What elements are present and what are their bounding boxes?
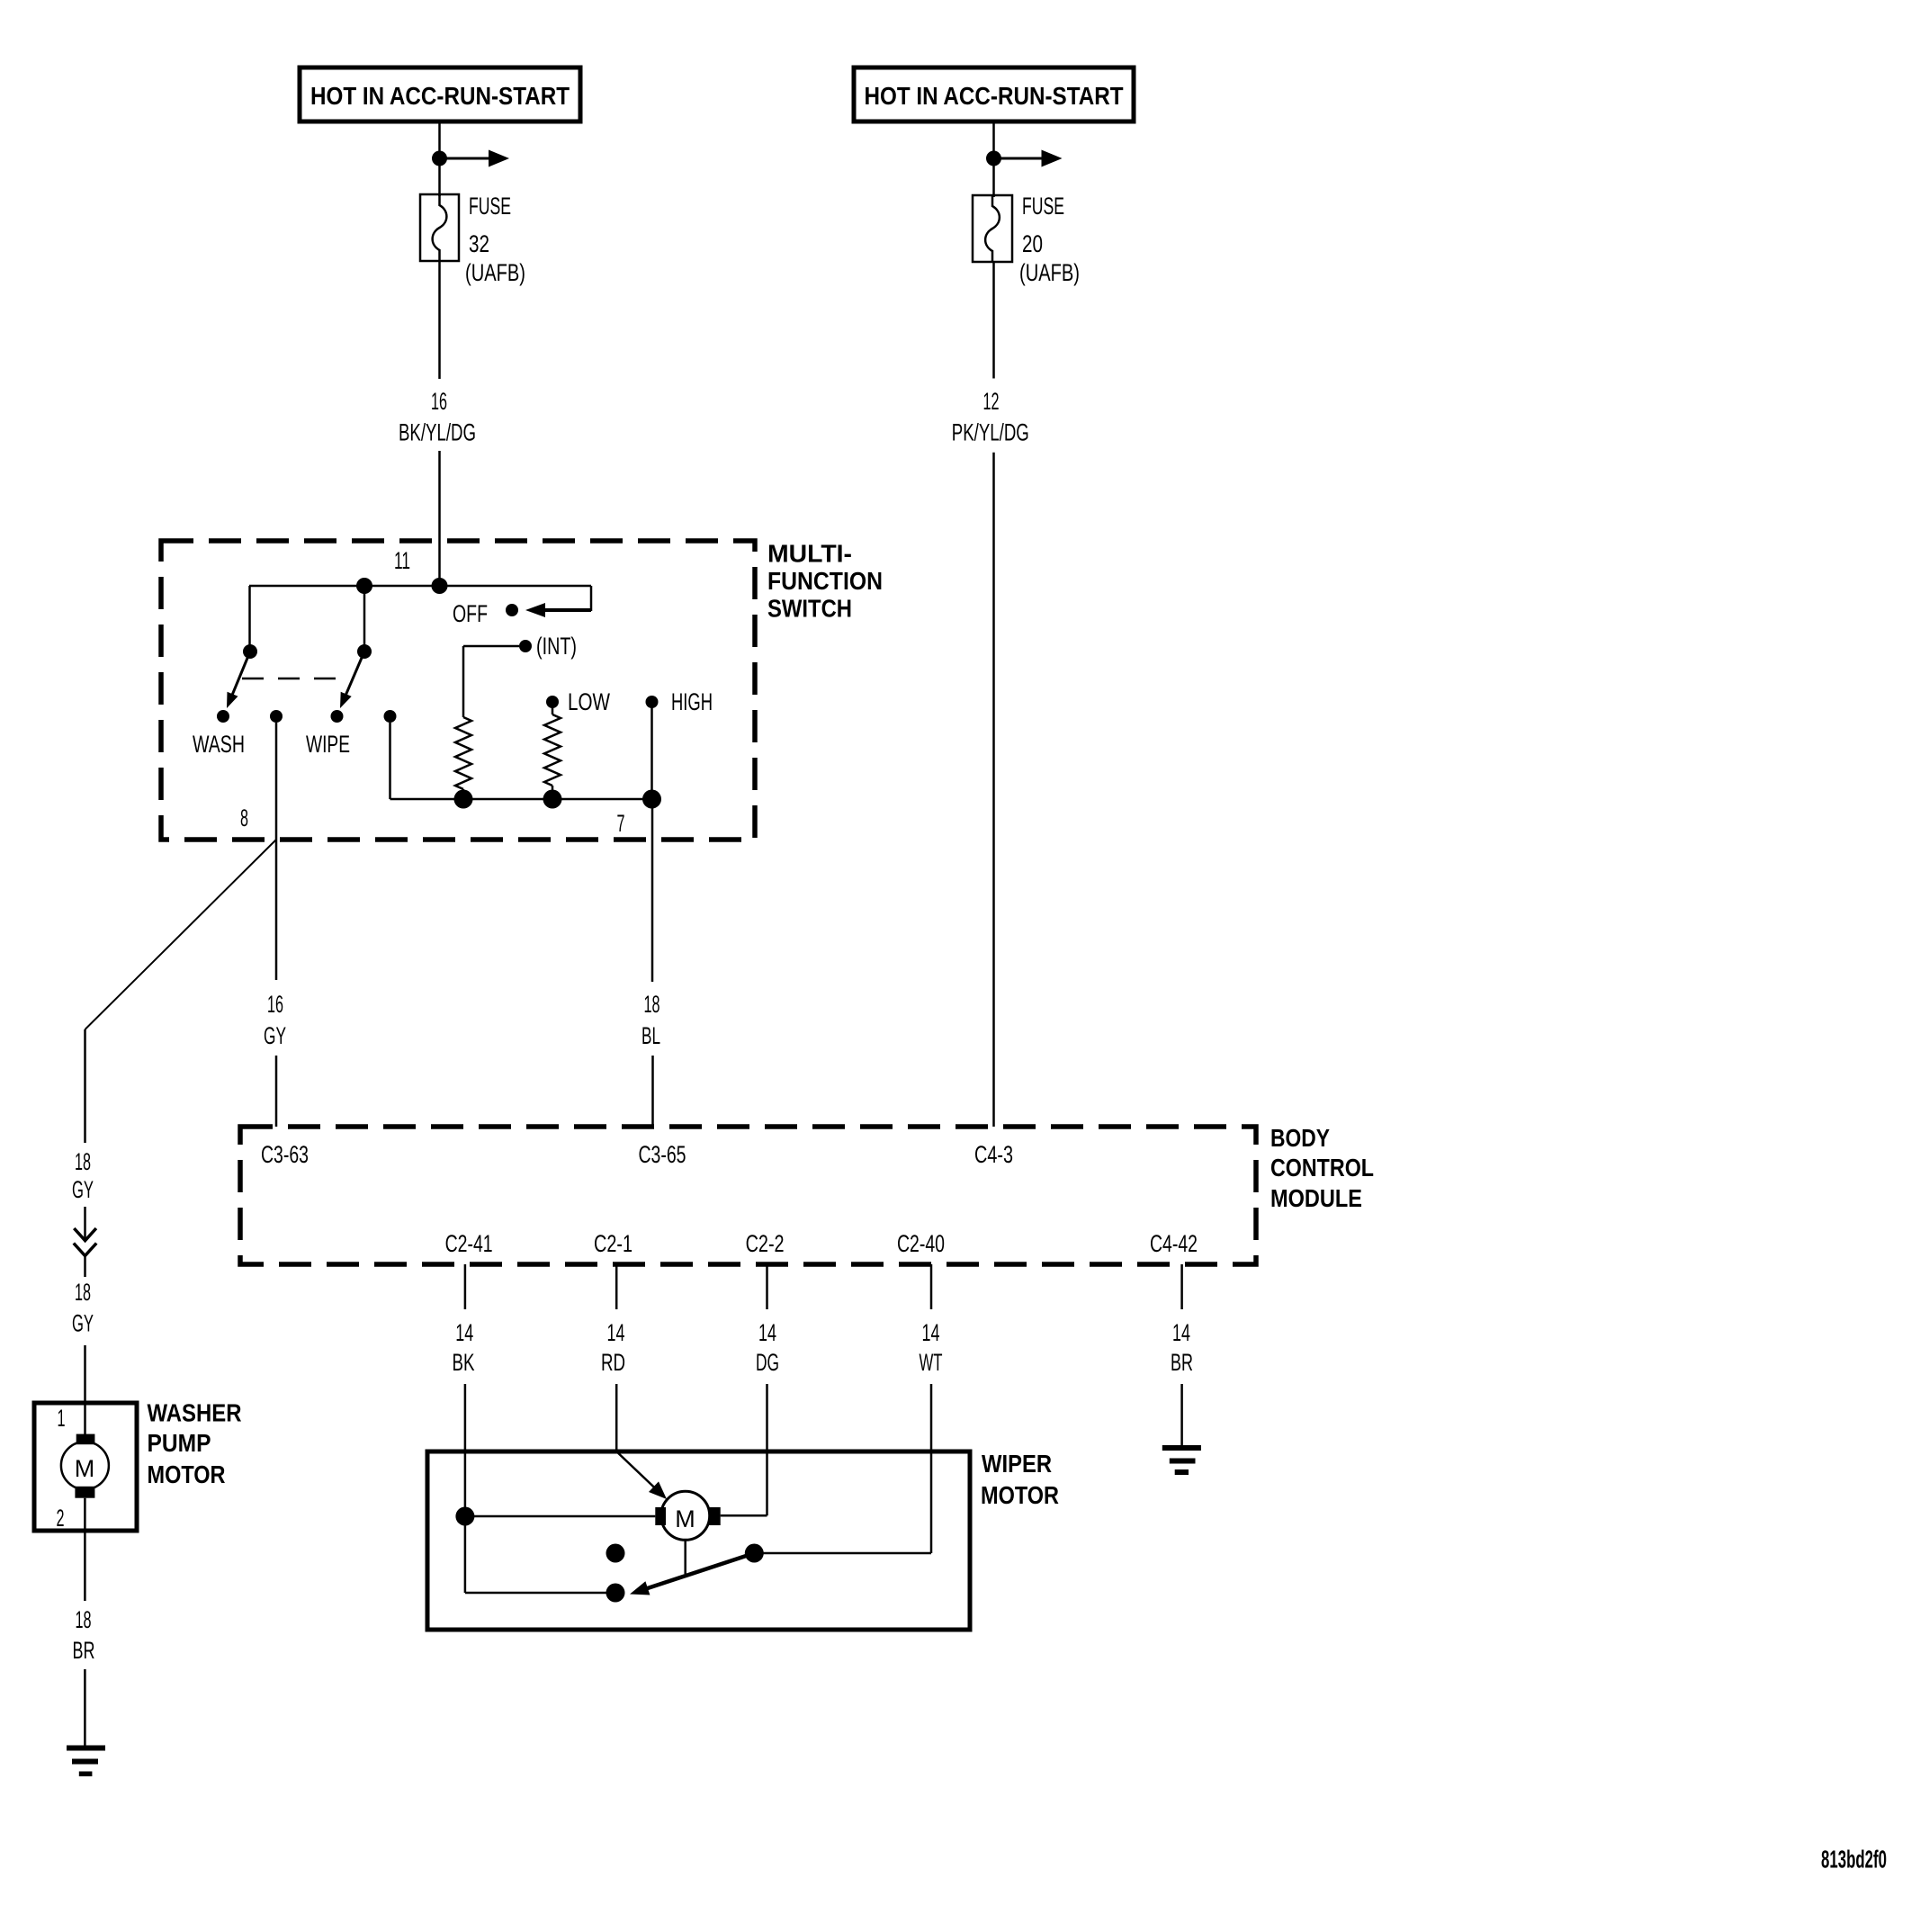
- wire wipe output contact to bus: [389, 723, 391, 799]
- wire label 16 BK/YL/DG: [399, 388, 476, 446]
- wire label 14 BR: [1171, 1319, 1193, 1376]
- wiper motor label: [981, 1450, 1059, 1509]
- svg-text:HOT IN ACC-RUN-START: HOT IN ACC-RUN-START: [865, 82, 1124, 110]
- svg-text:GY: GY: [264, 1022, 286, 1049]
- svg-text:MOTOR: MOTOR: [148, 1460, 226, 1488]
- wire bus right drop to OFF: [590, 586, 593, 611]
- svg-text:BR: BR: [1171, 1349, 1193, 1376]
- label LOW: [568, 688, 610, 715]
- wire speed output bus: [390, 798, 652, 801]
- svg-text:M: M: [75, 1455, 95, 1482]
- svg-text:GY: GY: [72, 1176, 94, 1203]
- wire fuse20 to label 12: [992, 262, 995, 379]
- svg-text:C4-3: C4-3: [974, 1141, 1013, 1168]
- wire to inline connector: [84, 1207, 86, 1240]
- wire INT resistor to bus: [462, 789, 465, 799]
- washer pump motor box: [34, 1403, 137, 1531]
- body control module label: [1270, 1124, 1374, 1212]
- wire bus drop to wipe pivot: [363, 586, 366, 651]
- svg-text:14: 14: [455, 1319, 473, 1346]
- wire washer pump diagonal: [85, 840, 277, 1029]
- svg-text:32: 32: [469, 230, 489, 257]
- svg-text:LOW: LOW: [568, 688, 610, 715]
- svg-text:(UAFB): (UAFB): [465, 259, 525, 286]
- wire label 14 RD: [601, 1319, 625, 1376]
- pin C4-42 label: [1150, 1230, 1198, 1257]
- multi-function switch box (dashed): [161, 541, 755, 840]
- wire pin 7 to BCM C3-65: [651, 1056, 654, 1127]
- pin C2-41 label: [445, 1230, 493, 1257]
- wire washer pump drop 1: [84, 1029, 86, 1143]
- svg-text:16: 16: [431, 388, 447, 415]
- svg-text:WT: WT: [920, 1349, 943, 1376]
- contact OFF: [506, 604, 518, 616]
- pin C2-40 label: [897, 1230, 945, 1257]
- svg-text:FUSE: FUSE: [469, 193, 511, 220]
- wire C2-40 down: [930, 1264, 933, 1309]
- wire fuse32 to label 16: [438, 261, 441, 379]
- pin C2-2 label: [746, 1230, 785, 1257]
- svg-text:18: 18: [644, 991, 660, 1018]
- wire washer pump pin 2 down: [84, 1498, 86, 1601]
- svg-text:RD: RD: [601, 1349, 625, 1376]
- contact LOW: [546, 696, 559, 708]
- svg-text:14: 14: [1172, 1319, 1190, 1346]
- svg-text:12: 12: [983, 388, 1000, 415]
- svg-text:BL: BL: [641, 1022, 660, 1049]
- node BK terminal: [455, 1507, 474, 1526]
- fuse 20 value label: [1019, 193, 1080, 286]
- svg-text:CONTROL: CONTROL: [1270, 1154, 1374, 1182]
- svg-text:C4-42: C4-42: [1150, 1230, 1198, 1257]
- wire C2-2 to wiper motor: [721, 1384, 767, 1515]
- node junction INT resistor: [454, 790, 473, 809]
- wire WT terminal right: [754, 1552, 931, 1555]
- svg-text:1: 1: [58, 1405, 66, 1432]
- wire C2-41 to wiper motor: [464, 1384, 467, 1516]
- wire C2-41 down: [464, 1264, 467, 1309]
- power symbol B+ HOT IN ACC-RUN-START (right): [854, 67, 1134, 121]
- wire pin 8 down: [275, 723, 278, 980]
- inline connector (chevrons): [74, 1228, 96, 1256]
- label WIPE: [306, 731, 350, 758]
- svg-text:HIGH: HIGH: [671, 688, 713, 715]
- fuse 20 (UAFB): [973, 195, 1012, 262]
- svg-text:C2-41: C2-41: [445, 1230, 493, 1257]
- svg-text:OFF: OFF: [453, 600, 488, 627]
- svg-text:C2-40: C2-40: [897, 1230, 945, 1257]
- wire bus drop to wash pivot: [248, 586, 251, 651]
- node WT terminal: [745, 1544, 764, 1563]
- svg-text:BK/YL/DG: BK/YL/DG: [399, 419, 476, 446]
- wire switch common bus: [249, 585, 591, 588]
- ground (washer pump): [67, 1746, 105, 1777]
- pin C4-3 label: [974, 1141, 1013, 1168]
- wire fuse32 feed from HOT box: [438, 121, 441, 196]
- wire label 18 BR: [73, 1606, 95, 1664]
- switch wiper arm OFF (arrow): [525, 603, 591, 617]
- svg-text:FUNCTION: FUNCTION: [767, 567, 883, 595]
- svg-text:(INT): (INT): [536, 633, 577, 660]
- svg-text:14: 14: [922, 1319, 940, 1346]
- svg-text:(UAFB): (UAFB): [1019, 259, 1080, 286]
- wire label 14 WT: [920, 1319, 943, 1376]
- svg-text:8: 8: [240, 804, 248, 831]
- label OFF: [453, 600, 488, 627]
- pin 8 label: [240, 804, 248, 831]
- node junction pin 7: [642, 790, 661, 809]
- svg-text:C2-1: C2-1: [594, 1230, 633, 1257]
- wire branch arrow right (right feed): [994, 150, 1063, 167]
- label HIGH: [671, 688, 713, 715]
- wire pin 7 down: [651, 799, 654, 982]
- wire BK terminal to motor brush: [465, 1515, 655, 1518]
- svg-text:20: 20: [1022, 230, 1043, 257]
- contact WIPE: [331, 710, 344, 723]
- wire label 18 BL: [641, 991, 660, 1049]
- wire pin 8 to BCM C3-63: [275, 1056, 278, 1127]
- svg-text:7: 7: [617, 810, 625, 837]
- fuse 32 (UAFB): [420, 194, 459, 261]
- ground (BCM C4-42): [1162, 1445, 1201, 1475]
- svg-text:MULTI-: MULTI-: [767, 540, 852, 568]
- wire label 16 GY: [264, 991, 286, 1049]
- wire C4-42 down: [1180, 1264, 1183, 1309]
- wire to ground (BCM): [1180, 1384, 1183, 1447]
- wire from inline connector: [84, 1256, 86, 1278]
- wiper motor box: [427, 1451, 970, 1630]
- contact HIGH: [646, 696, 659, 708]
- body control module box (dashed): [240, 1127, 1256, 1264]
- switch arm WIPE (arrow): [340, 651, 364, 708]
- node junction LOW resistor: [543, 790, 562, 809]
- diagram id 813bd2f0: [1821, 1846, 1887, 1874]
- switch arm WASH (arrow): [227, 651, 250, 708]
- contact wipe output: [384, 710, 397, 723]
- node junction pin 11: [432, 578, 448, 594]
- wire to ground (left): [84, 1669, 86, 1746]
- node junction at left feed: [432, 151, 447, 166]
- svg-text:MODULE: MODULE: [1270, 1184, 1362, 1212]
- svg-text:WASH: WASH: [193, 731, 245, 758]
- svg-text:11: 11: [394, 547, 410, 574]
- svg-text:14: 14: [758, 1319, 776, 1346]
- svg-text:FUSE: FUSE: [1022, 193, 1064, 220]
- washer pump motor M1: [61, 1434, 109, 1498]
- wire C2-1 to wiper motor: [615, 1384, 618, 1451]
- pin 11 label: [394, 547, 410, 574]
- resistor intermittent (INT): [455, 717, 471, 789]
- svg-text:BODY: BODY: [1270, 1124, 1330, 1152]
- wire LOW contact to resistor: [552, 707, 554, 714]
- svg-text:18: 18: [75, 1279, 91, 1306]
- svg-text:14: 14: [607, 1319, 625, 1346]
- node park contact A: [606, 1584, 625, 1603]
- contact (INT): [519, 640, 532, 652]
- svg-text:MOTOR: MOTOR: [981, 1481, 1059, 1509]
- pin 7 label: [617, 810, 625, 837]
- wire fuse20 feed from HOT box: [992, 121, 995, 197]
- wire INT contact to resistor: [463, 646, 519, 717]
- wire C2-2 down: [766, 1264, 768, 1309]
- svg-text:BK: BK: [453, 1349, 475, 1376]
- svg-text:C2-2: C2-2: [746, 1230, 785, 1257]
- wire fuse20 to BCM C4-3: [992, 453, 995, 1127]
- pin 2 label: [57, 1505, 65, 1532]
- washer pump motor label: [148, 1399, 242, 1489]
- wire label 18 GY (lower): [72, 1279, 94, 1337]
- pin C3-63 label: [261, 1141, 309, 1168]
- node wipe arm pivot: [357, 644, 372, 659]
- wire label to multi-function switch pin 11: [438, 451, 441, 586]
- svg-text:M: M: [675, 1505, 695, 1532]
- svg-text:16: 16: [267, 991, 283, 1018]
- svg-text:PUMP: PUMP: [148, 1429, 211, 1457]
- wire to washer pump pin 1: [84, 1345, 86, 1436]
- power symbol B+ HOT IN ACC-RUN-START (left): [300, 67, 580, 121]
- fuse 32 value label: [465, 193, 525, 286]
- multi-function switch label: [767, 540, 883, 623]
- wire label 18 GY (upper): [72, 1148, 94, 1203]
- contact WASH: [217, 710, 229, 723]
- wire BK terminal to park contact: [465, 1516, 615, 1593]
- wiper motor M2: [655, 1491, 720, 1540]
- pin 1 label: [58, 1405, 66, 1432]
- label (INT): [536, 633, 577, 660]
- contact pin 8 (wash output): [270, 710, 283, 723]
- svg-text:BR: BR: [73, 1637, 95, 1664]
- svg-text:C3-65: C3-65: [639, 1141, 686, 1168]
- park switch arm (arrow): [630, 1553, 754, 1595]
- wire C2-1 down: [615, 1264, 618, 1309]
- svg-text:813bd2f0: 813bd2f0: [1821, 1846, 1887, 1874]
- wire label 14 BK: [453, 1319, 475, 1376]
- node junction at right feed: [986, 151, 1001, 166]
- svg-text:18: 18: [76, 1606, 92, 1633]
- wire label 12 PK/YL/DG: [952, 388, 1029, 445]
- pin C3-65 label: [639, 1141, 686, 1168]
- node junction wash/wipe branch: [356, 578, 372, 594]
- svg-text:PK/YL/DG: PK/YL/DG: [952, 418, 1029, 445]
- node wash arm pivot: [243, 644, 257, 659]
- wire branch arrow right (left feed): [440, 150, 510, 167]
- svg-text:C3-63: C3-63: [261, 1141, 309, 1168]
- wire label 14 DG: [756, 1319, 779, 1376]
- label WASH: [193, 731, 245, 758]
- resistor low speed: [544, 714, 561, 786]
- svg-text:DG: DG: [756, 1349, 779, 1376]
- mechanical link (dashed): [242, 678, 349, 680]
- svg-text:2: 2: [57, 1505, 65, 1532]
- svg-text:WIPER: WIPER: [982, 1450, 1052, 1478]
- wire RD to motor armature (arrow): [616, 1451, 667, 1499]
- svg-text:WIPE: WIPE: [306, 731, 350, 758]
- svg-text:WASHER: WASHER: [148, 1399, 242, 1427]
- svg-text:GY: GY: [72, 1310, 94, 1337]
- node park contact B: [606, 1544, 625, 1563]
- pin C2-1 label: [594, 1230, 633, 1257]
- wire motor to park arm: [684, 1540, 686, 1574]
- wire LOW resistor to bus: [552, 786, 554, 799]
- svg-text:18: 18: [75, 1148, 91, 1175]
- svg-text:SWITCH: SWITCH: [767, 595, 852, 623]
- wire C2-40 to wiper motor: [930, 1384, 933, 1553]
- svg-text:HOT IN ACC-RUN-START: HOT IN ACC-RUN-START: [310, 82, 570, 110]
- wire HIGH contact down: [650, 707, 653, 799]
